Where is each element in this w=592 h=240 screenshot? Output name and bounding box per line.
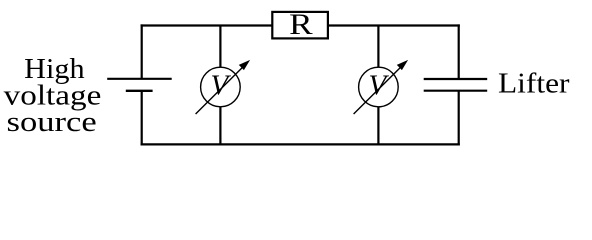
wire voltmeter V1 top branch — [219, 26, 221, 70]
wire top-right segment (resistor box to capacitor top) — [328, 24, 460, 26]
voltmeter V1 (adjustable meter, left) — [196, 60, 251, 114]
label: High voltage source — [4, 53, 102, 138]
wire right lower (capacitor to bottom rail) — [458, 91, 460, 146]
svg-text:Lifter: Lifter — [498, 68, 570, 100]
wire left lower (battery to bottom rail) — [141, 91, 143, 146]
wire voltmeter V2 bottom branch — [377, 105, 379, 145]
svg-text:source: source — [7, 106, 97, 138]
wire voltmeter V2 top branch — [377, 26, 379, 70]
wire top-left segment (battery top to resistor box) — [141, 24, 273, 26]
voltmeter V2 (adjustable meter, right) — [354, 60, 409, 114]
resistor R (box symbol with label R) — [272, 8, 328, 41]
wire right upper (top rail to capacitor) — [458, 24, 460, 79]
wire voltmeter V1 bottom branch — [219, 105, 221, 145]
svg-text:R: R — [289, 8, 313, 41]
wire left upper (top rail to battery) — [141, 24, 143, 78]
battery B1 (high voltage source) — [107, 79, 172, 91]
wire bottom rail — [141, 143, 460, 145]
capacitor C1 (lifter) — [424, 79, 488, 91]
